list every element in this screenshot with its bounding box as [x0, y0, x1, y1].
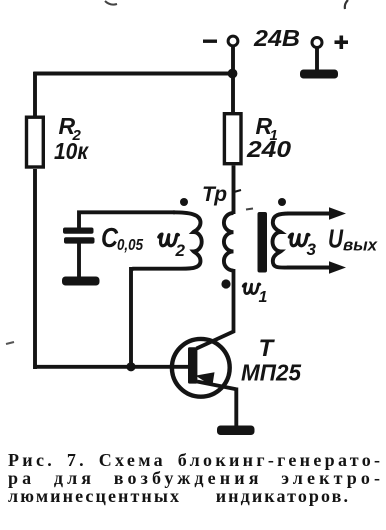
node base junction	[126, 362, 135, 371]
output arrow bottom	[287, 261, 346, 274]
caption line 1	[8, 450, 380, 470]
label MP25	[241, 360, 302, 386]
svg-text:МП25: МП25	[241, 360, 302, 386]
wire collector	[197, 269, 234, 349]
svg-text:люминесцентных индикаторов.: люминесцентных индикаторов.	[8, 486, 348, 506]
svg-text:C: C	[101, 222, 119, 253]
wire R2 bottom to base line	[33, 169, 37, 369]
wire plus terminal to chassis	[315, 48, 319, 72]
svg-text:ра для возбуждения электро-: ра для возбуждения электро-	[8, 468, 380, 488]
capacitor C0,05	[63, 228, 95, 244]
output arrow top	[287, 207, 346, 220]
wire minus terminal down	[231, 46, 235, 76]
svg-text:0,05: 0,05	[117, 237, 143, 254]
transformer winding w3	[273, 214, 289, 268]
transistor base bar	[188, 347, 197, 383]
wire capacitor bottom lead	[77, 243, 81, 278]
node top junction	[228, 69, 238, 79]
label 240	[246, 136, 291, 162]
stray dash near w3	[246, 209, 253, 210]
wire main vertical top	[231, 71, 235, 113]
svg-text:3: 3	[307, 240, 317, 259]
svg-text:240: 240	[246, 136, 291, 162]
wire R1 to w1	[232, 166, 236, 215]
phase dot w2	[180, 198, 188, 206]
transformer winding w1	[224, 213, 234, 271]
svg-text:10к: 10к	[54, 138, 89, 164]
tick mark near Tr	[234, 190, 241, 192]
label T	[259, 335, 276, 362]
stray mark top edge left	[105, 1, 117, 5]
wire top horizontal	[33, 72, 232, 76]
wire w2 bottom vertical	[129, 267, 133, 367]
wire base horizontal	[33, 365, 189, 369]
label 10k	[54, 138, 89, 164]
transformer winding w2	[131, 212, 202, 270]
stray mark top edge right	[345, 0, 348, 9]
label R1	[256, 113, 278, 144]
stray mark left margin	[6, 342, 14, 344]
chassis ground at plus terminal	[300, 70, 338, 79]
label w2	[159, 234, 186, 260]
label w1	[243, 284, 267, 306]
plus sign	[335, 36, 349, 50]
minus sign	[203, 40, 217, 43]
svg-text:24В: 24В	[253, 25, 300, 51]
label Tr	[202, 183, 227, 206]
caption line 3	[8, 486, 348, 506]
terminal minus	[228, 36, 238, 46]
chassis ground at capacitor	[62, 277, 100, 286]
transformer core	[258, 212, 268, 273]
caption line 2	[8, 468, 380, 488]
emitter with arrow	[196, 372, 237, 389]
resistor R2	[27, 117, 44, 167]
phase dot w3	[278, 198, 286, 206]
svg-text:Рис. 7. Схема блокинг-генерато: Рис. 7. Схема блокинг-генерато-	[8, 450, 380, 470]
label w3	[289, 234, 316, 259]
svg-text:Т: Т	[259, 335, 276, 362]
terminal plus	[312, 38, 322, 48]
phase dot w1	[221, 279, 230, 288]
svg-text:U: U	[328, 224, 344, 254]
label R2	[59, 113, 82, 144]
chassis ground at emitter	[217, 426, 255, 436]
resistor R1	[224, 114, 241, 164]
wire capacitor to w2 top	[79, 212, 175, 229]
label Uvyh	[328, 224, 379, 255]
svg-text:вых: вых	[343, 236, 379, 255]
wire emitter vertical	[234, 388, 238, 428]
svg-text:1: 1	[259, 289, 268, 306]
svg-text:2: 2	[175, 241, 186, 260]
transistor T MP25	[172, 339, 230, 397]
label C 0,05	[101, 222, 143, 254]
label 24V	[253, 25, 300, 51]
svg-text:Тр: Тр	[202, 183, 227, 206]
wire left vertical to R2	[33, 72, 37, 116]
